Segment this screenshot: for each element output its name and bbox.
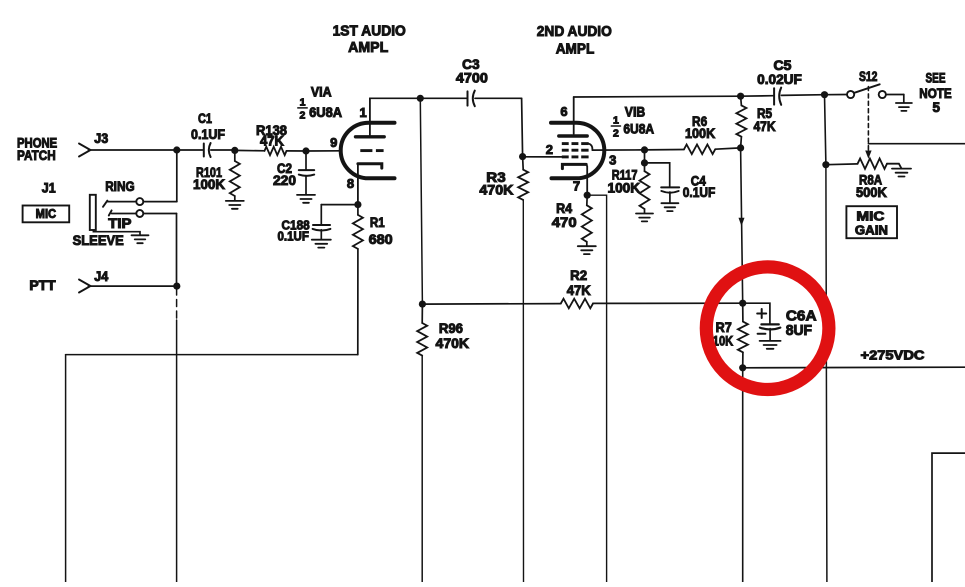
svg-text:4700: 4700	[456, 71, 488, 86]
svg-text:R4: R4	[556, 201, 572, 216]
svg-text:470K: 470K	[479, 182, 513, 197]
svg-text:47K: 47K	[567, 283, 591, 298]
svg-text:100K: 100K	[685, 126, 715, 141]
svg-text:0.02UF: 0.02UF	[757, 72, 802, 87]
svg-text:0.1UF: 0.1UF	[683, 185, 716, 200]
svg-text:+275VDC: +275VDC	[861, 347, 926, 362]
svg-text:R1: R1	[370, 215, 385, 230]
svg-text:47K: 47K	[260, 133, 284, 148]
svg-text:680: 680	[369, 232, 393, 247]
svg-text:VIB: VIB	[625, 104, 646, 119]
svg-text:1: 1	[300, 96, 306, 108]
svg-text:0.1UF: 0.1UF	[191, 127, 225, 142]
svg-text:TIP: TIP	[108, 216, 131, 231]
svg-text:MIC: MIC	[36, 207, 57, 221]
svg-text:6: 6	[560, 104, 567, 119]
svg-text:47K: 47K	[753, 119, 775, 134]
svg-text:3: 3	[609, 153, 616, 168]
svg-text:GAIN: GAIN	[855, 222, 888, 237]
svg-text:6U8A: 6U8A	[309, 105, 342, 120]
svg-text:1: 1	[613, 115, 619, 127]
svg-text:R96: R96	[439, 321, 464, 336]
svg-text:500K: 500K	[856, 185, 887, 200]
svg-text:2: 2	[299, 110, 305, 122]
svg-text:PTT: PTT	[29, 278, 56, 293]
svg-text:220: 220	[273, 173, 296, 188]
svg-text:1ST AUDIO: 1ST AUDIO	[333, 23, 406, 40]
svg-text:AMPL: AMPL	[556, 40, 595, 57]
svg-text:2: 2	[546, 142, 553, 157]
svg-text:SLEEVE: SLEEVE	[73, 233, 124, 248]
svg-text:J4: J4	[94, 269, 108, 284]
svg-text:S12: S12	[859, 69, 878, 84]
svg-text:5: 5	[932, 100, 940, 115]
svg-text:2: 2	[613, 128, 619, 140]
svg-text:J3: J3	[94, 131, 108, 146]
svg-text:C1: C1	[198, 111, 212, 126]
svg-text:SEE: SEE	[925, 71, 945, 86]
svg-text:1: 1	[359, 105, 366, 120]
svg-text:9: 9	[330, 135, 337, 150]
svg-text:470K: 470K	[436, 336, 470, 351]
svg-text:J1: J1	[42, 181, 56, 196]
svg-text:PATCH: PATCH	[17, 148, 56, 163]
svg-text:7: 7	[573, 179, 580, 194]
svg-text:RING: RING	[105, 179, 134, 194]
svg-text:VIA: VIA	[311, 85, 332, 100]
svg-text:0.1UF: 0.1UF	[277, 229, 309, 243]
svg-text:6U8A: 6U8A	[623, 122, 654, 137]
svg-text:100K: 100K	[608, 181, 641, 196]
svg-text:2ND AUDIO: 2ND AUDIO	[537, 23, 612, 40]
svg-text:MIC: MIC	[856, 208, 885, 223]
svg-text:470: 470	[552, 215, 577, 230]
svg-text:C5: C5	[774, 58, 793, 73]
svg-text:8: 8	[347, 176, 354, 191]
svg-text:AMPL: AMPL	[348, 39, 388, 56]
svg-text:NOTE: NOTE	[919, 86, 952, 101]
svg-text:8UF: 8UF	[786, 323, 812, 339]
svg-text:100K: 100K	[193, 177, 225, 192]
svg-text:R2: R2	[570, 268, 587, 283]
